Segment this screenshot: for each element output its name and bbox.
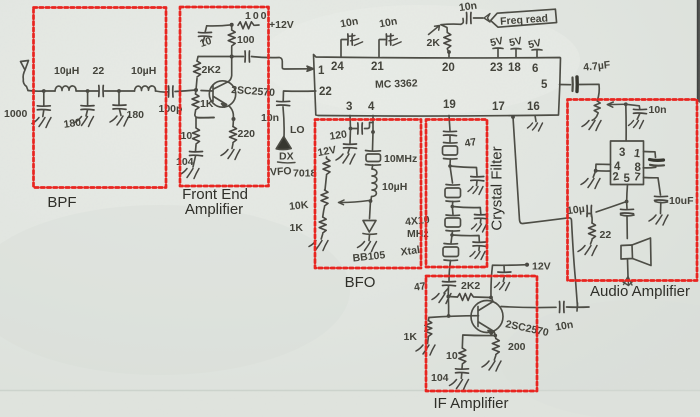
wiper arrow <box>429 26 440 35</box>
node top rail <box>230 23 234 27</box>
wire filter output to IF amp <box>449 261 451 282</box>
wire C100p to base node <box>175 90 196 92</box>
ground <box>358 242 377 252</box>
node pin 20 <box>447 50 451 54</box>
resistor 220 (emitter) <box>232 119 235 127</box>
potentiometer volume <box>592 101 600 120</box>
capacitor 22 (series) <box>99 86 104 97</box>
wire IF input down to base rail <box>447 297 449 317</box>
wire node B to C22 <box>88 90 98 92</box>
resistor (BFO feed) <box>326 157 328 159</box>
capacitor (pin 3 bypass) <box>349 129 352 144</box>
wiper arrow (pot to varactor wire) <box>339 200 370 205</box>
wire emitter rail to left branch <box>196 118 214 128</box>
pin 23 5V stub <box>493 48 503 57</box>
resistor 200 (emitter) <box>494 336 497 339</box>
node speaker branch <box>625 200 629 204</box>
inductor 10uH (BFO, vertical) <box>371 169 377 200</box>
node audio input <box>624 102 628 106</box>
ground arrow <box>623 277 633 286</box>
Freq read flag box <box>490 9 556 27</box>
wire pot to 10n cap <box>461 19 464 25</box>
pin 5 stub <box>560 84 571 86</box>
pin 6 5V stub <box>532 50 542 58</box>
capacitor 10n (pin 21) <box>386 34 391 45</box>
transistor Q1 2SC2570 <box>209 81 235 107</box>
shunt capacitor 2 <box>452 207 481 215</box>
Crystal Filter section box <box>426 120 487 268</box>
wire node to LM386 pin 3 <box>625 104 627 141</box>
ground <box>578 246 597 256</box>
wire L1 to node B <box>77 90 88 92</box>
capacitor 10n (IF output coupling) <box>560 302 565 313</box>
ground <box>32 118 51 128</box>
node C <box>117 89 121 93</box>
wire node C to L2 <box>119 90 135 92</box>
capacitor 120 (pins 3-4 bridge) <box>351 128 358 130</box>
ground <box>75 117 94 127</box>
ground <box>432 294 451 304</box>
node pins 2-4 <box>594 169 598 173</box>
coupling capacitor (speaker) <box>626 202 628 209</box>
wire 4.7uF to volume pot <box>580 84 600 101</box>
ground <box>309 241 328 251</box>
arrowhead to freq read <box>484 14 490 23</box>
node B <box>86 89 90 93</box>
IF Amplifier section box <box>426 276 537 391</box>
ground <box>649 215 668 225</box>
ground <box>450 380 469 390</box>
node A <box>42 89 46 93</box>
BPF section box <box>34 8 167 188</box>
paper bottom edge <box>0 391 700 417</box>
wire cap to LO triangle <box>283 107 284 138</box>
ground <box>470 252 485 260</box>
node collector junction <box>489 296 493 300</box>
resistor 1K (base to emitter rail) <box>195 90 198 94</box>
crystal X1 <box>444 142 458 145</box>
node base Q1 <box>194 88 198 92</box>
capacitor 10 (decoupling, top left) <box>205 26 207 32</box>
capacitor 180 (shunt) <box>118 91 120 105</box>
wire emitter node <box>494 332 496 336</box>
op-amp U2 LM386 outline <box>611 141 644 185</box>
capacitor 47 (IF input) <box>443 282 456 286</box>
wire L2 to C100p <box>156 91 169 92</box>
pin 4 stub <box>372 116 374 133</box>
capacitor 47 (series) <box>444 131 457 135</box>
pin 20 stub <box>448 52 450 57</box>
capacitor 10n (LO coupling) <box>277 101 290 105</box>
wire node A to L1 <box>44 90 55 92</box>
junction tick pin17 wire <box>576 303 579 311</box>
wire C22 to node C <box>105 90 120 92</box>
wire collector node to 2K2 top <box>199 56 232 58</box>
node filter 1 <box>448 164 452 168</box>
dark photo edge top-right <box>697 0 700 103</box>
transistor Q2 2SC2570 (IF) <box>471 301 503 333</box>
capacitor 100p (series) <box>169 86 174 97</box>
capacitor 10n (input filter) <box>626 104 640 109</box>
Front End Amplifier section box <box>180 7 269 186</box>
resistor 10 (left branch) <box>193 128 200 144</box>
node collector <box>230 55 234 59</box>
arrowhead into pin 1 <box>307 66 314 71</box>
wire collector up <box>229 57 232 82</box>
op-amp/IC U1 MC3362 outline <box>314 55 561 117</box>
supply node 12V <box>525 263 529 267</box>
speaker LS1 <box>621 245 633 259</box>
resistor 2K2 (collector to base) <box>196 79 197 91</box>
ground <box>495 283 510 291</box>
inductor L1 10uH <box>55 86 76 91</box>
wire to MC3362 pin 1 <box>252 57 311 70</box>
ground <box>468 187 483 195</box>
coupling capacitor to pin 1 <box>234 56 244 58</box>
varactor diode BB105 <box>363 221 377 235</box>
crystal X3 <box>451 207 454 215</box>
antenna <box>21 61 29 91</box>
wire 12V to collector <box>491 265 527 298</box>
wire speaker to ground <box>627 260 630 277</box>
capacitor (12V decoupling) <box>503 265 505 272</box>
resistor 1K (IF base) <box>427 318 430 321</box>
emitter node <box>232 117 236 121</box>
pins 2,4 tie wires <box>596 164 611 171</box>
inductor L2 10uH <box>135 86 156 91</box>
capacitor 1000 (shunt) <box>43 91 45 106</box>
ground <box>336 154 355 164</box>
resistor 100 (collector load, vertical) <box>231 47 233 57</box>
IF output wire <box>501 307 556 308</box>
node filter 3 <box>450 233 454 237</box>
shunt capacitor 3 <box>452 235 479 241</box>
capacitor 180 (shunt) <box>87 91 89 106</box>
wire emitter to bypass branch <box>462 335 495 348</box>
wire antenna to node A <box>28 90 44 93</box>
capacitor 10n (pin 24) <box>348 34 353 45</box>
ground (slanted) <box>346 32 363 48</box>
node pin 3 <box>349 127 353 131</box>
ground <box>482 361 501 371</box>
resistor 10 (bypass) <box>459 348 466 364</box>
wire top rail left <box>207 25 232 26</box>
node IF input <box>446 295 450 299</box>
capacitor 10n (freq counter tap) <box>467 13 472 24</box>
ground <box>110 116 129 126</box>
resistor 1K (BFO lower) <box>319 217 326 233</box>
pin 1 wire <box>644 152 656 158</box>
pin 3 stub into BFO <box>349 116 352 129</box>
capacitor 4.7uF (audio coupling) <box>571 78 573 92</box>
wire pin 17 long run to IF output <box>513 117 578 307</box>
node filter 2 <box>451 205 455 209</box>
pin 19 stub into filter <box>449 116 450 131</box>
Audio Amplifier section box <box>568 100 698 281</box>
pin 18 5V stub <box>511 49 521 58</box>
resistor 2K2 (IF) <box>448 296 457 299</box>
ground <box>221 150 240 160</box>
potentiometer 2K (tuning) <box>448 50 450 53</box>
resistor 100 (to +12V, horizontal) <box>238 22 254 29</box>
crystal X2 <box>450 166 453 183</box>
BFO section box <box>315 120 421 269</box>
base rail wire <box>429 316 479 318</box>
ground <box>582 121 601 131</box>
wire cap to resistor 22 <box>587 214 592 224</box>
capacitor 104 (bypass) <box>456 369 469 373</box>
ground <box>593 171 596 178</box>
pin 24 decoupling stub <box>341 40 347 58</box>
pin 21 decoupling stub <box>379 40 386 58</box>
pin 16 ground stub <box>535 116 536 122</box>
ground <box>180 169 199 179</box>
wire node to varactor <box>370 201 371 219</box>
capacitor 104 <box>190 152 203 156</box>
wiper arrow volume <box>607 102 626 107</box>
ground <box>472 224 487 232</box>
crystal X5 10MHz (BFO) <box>372 132 375 150</box>
wire collector to node <box>491 298 493 302</box>
capacitor 10u <box>587 206 592 217</box>
resistor 22 <box>589 223 596 239</box>
node pin 4 <box>371 130 375 134</box>
ground <box>416 345 435 355</box>
shunt capacitor 1 <box>450 166 477 176</box>
pin 17 node <box>511 115 515 119</box>
pin 7 wire and capacitor 10uF <box>644 178 661 196</box>
capacitor gain (pins 1-8) <box>650 158 664 162</box>
ground <box>629 121 644 129</box>
capacitor 10u gain branch wire <box>596 202 627 213</box>
node base <box>447 314 451 318</box>
node varactor <box>369 199 373 203</box>
ground (slanted) <box>384 32 401 48</box>
pin 5 wire down <box>626 185 629 202</box>
pin 22 wire to LO <box>283 91 316 101</box>
LO source triangle <box>276 137 291 150</box>
wire emitter to node <box>229 106 234 119</box>
crystal X4 <box>451 235 452 243</box>
potentiometer 10K <box>321 190 328 206</box>
